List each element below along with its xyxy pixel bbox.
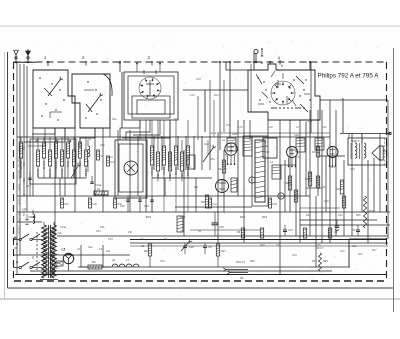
svg-text:L6a: L6a [106, 250, 111, 253]
svg-text:C45: C45 [219, 225, 224, 229]
svg-text:C4a 50p: C4a 50p [18, 142, 21, 152]
svg-text:4,7k: 4,7k [238, 126, 243, 129]
svg-text:C44: C44 [292, 254, 297, 257]
svg-text:R16: R16 [285, 181, 290, 185]
svg-text:C34: C34 [108, 238, 113, 241]
svg-text:R15: R15 [146, 215, 152, 219]
svg-text:C35: C35 [276, 244, 281, 247]
svg-text:R1 2M: R1 2M [36, 169, 40, 177]
svg-text:C41: C41 [213, 203, 218, 206]
svg-text:R14: R14 [218, 167, 223, 171]
svg-text:C26: C26 [144, 204, 149, 208]
svg-text:C2: C2 [140, 237, 144, 241]
svg-text:R26: R26 [144, 249, 149, 253]
svg-text:L3: L3 [270, 160, 273, 164]
svg-text:C12: C12 [111, 161, 116, 164]
svg-text:R15: R15 [240, 215, 246, 219]
svg-text:R9 50k: R9 50k [174, 167, 178, 176]
svg-text:C17 2n: C17 2n [54, 161, 58, 170]
svg-text:C36: C36 [316, 244, 321, 247]
svg-text:C15: C15 [226, 124, 231, 127]
svg-text:R6: R6 [92, 260, 96, 264]
svg-text:C14: C14 [190, 94, 195, 97]
svg-text:CV: CV [180, 230, 184, 233]
svg-text:R1b: R1b [65, 203, 70, 206]
svg-text:S7: S7 [31, 256, 35, 260]
svg-text:C22 5n: C22 5n [168, 173, 172, 182]
svg-text:S4a: S4a [88, 246, 93, 249]
svg-text:C12: C12 [204, 142, 209, 146]
svg-text:C13a: C13a [95, 183, 102, 187]
svg-text:L2: L2 [222, 138, 225, 142]
svg-text:R32: R32 [118, 203, 123, 206]
svg-text:R1a 2M: R1a 2M [18, 170, 21, 179]
svg-text:Philips 792 A et 795 A: Philips 792 A et 795 A [318, 73, 380, 80]
svg-text:(5): (5) [224, 154, 227, 157]
svg-text:R28: R28 [250, 260, 255, 263]
svg-text:C19: C19 [294, 133, 299, 137]
svg-text:R8 0,5: R8 0,5 [162, 167, 166, 175]
svg-text:R18: R18 [305, 177, 310, 181]
svg-text:MF C7: MF C7 [316, 247, 324, 250]
svg-text:R20: R20 [312, 151, 317, 154]
svg-text:R3 1M: R3 1M [60, 169, 64, 177]
svg-text:R22: R22 [336, 187, 341, 191]
svg-text:L6: L6 [112, 258, 116, 262]
svg-text:S13: S13 [54, 266, 59, 270]
svg-text:C33: C33 [96, 230, 101, 233]
svg-text:100pF R2: 100pF R2 [18, 156, 21, 168]
svg-text:0,1uF: 0,1uF [18, 184, 21, 191]
svg-text:R31: R31 [22, 178, 25, 183]
svg-text:R28: R28 [260, 244, 265, 247]
svg-text:L7: L7 [126, 258, 130, 262]
svg-text:L5: L5 [62, 248, 66, 252]
svg-text:C31: C31 [338, 214, 343, 217]
svg-text:C33a: C33a [60, 226, 67, 229]
svg-text:C23a: C23a [306, 120, 313, 123]
svg-text:R24: R24 [306, 214, 311, 217]
svg-text:R33: R33 [273, 203, 278, 206]
svg-text:6: 6 [280, 195, 282, 199]
svg-text:R25: R25 [356, 214, 361, 217]
svg-text:C13: C13 [196, 78, 201, 81]
svg-text:R14: R14 [108, 156, 113, 159]
svg-text:R21: R21 [322, 186, 327, 189]
svg-text:C6: C6 [208, 245, 212, 249]
svg-text:5: 5 [251, 179, 253, 183]
svg-text:R23: R23 [369, 209, 374, 213]
svg-text:C30: C30 [324, 200, 329, 203]
svg-text:R17: R17 [358, 252, 363, 256]
svg-text:R7 1M: R7 1M [150, 167, 154, 175]
svg-text:C40: C40 [93, 203, 98, 206]
svg-text:R25: R25 [323, 259, 328, 263]
svg-text:R27: R27 [221, 249, 226, 253]
svg-text:S10: S10 [352, 245, 357, 248]
svg-text:R15: R15 [201, 201, 206, 204]
svg-text:C2a: C2a [112, 118, 117, 121]
svg-text:C6a: C6a [22, 162, 25, 167]
svg-text:C13: C13 [288, 229, 293, 232]
svg-text:C4: C4 [352, 228, 356, 232]
svg-text:C28: C28 [350, 168, 355, 171]
svg-text:S2b: S2b [100, 226, 105, 229]
svg-text:R2 50k: R2 50k [48, 169, 52, 178]
svg-text:500Ω 5: 500Ω 5 [351, 139, 360, 143]
svg-text:R20: R20 [330, 166, 335, 169]
svg-text:R5: R5 [240, 276, 244, 280]
svg-text:R5 50: R5 50 [84, 169, 88, 176]
svg-text:R2a: R2a [210, 158, 215, 161]
svg-text:R17: R17 [372, 249, 377, 252]
svg-text:C16: C16 [232, 132, 237, 136]
svg-text:C18: C18 [268, 126, 273, 129]
svg-text:L10: L10 [22, 207, 27, 211]
svg-text:C43: C43 [160, 260, 165, 263]
svg-text:C21 2n: C21 2n [156, 173, 160, 182]
svg-text:C36: C36 [186, 165, 191, 169]
svg-text:C20: C20 [322, 126, 327, 129]
svg-text:R15 C7: R15 C7 [236, 260, 246, 264]
svg-text:C5 1n: C5 1n [18, 198, 21, 205]
svg-text:C23 1n: C23 1n [180, 173, 184, 182]
svg-text:C12: C12 [100, 144, 105, 147]
svg-text:C22a: C22a [210, 132, 217, 135]
svg-text:S4: S4 [58, 231, 62, 235]
svg-text:C27: C27 [296, 156, 301, 159]
svg-text:R30 50k: R30 50k [18, 212, 21, 222]
svg-text:CW: CW [189, 245, 194, 249]
svg-text:R29: R29 [312, 260, 317, 263]
svg-text:C17: C17 [26, 184, 31, 188]
svg-text:R13: R13 [214, 94, 219, 97]
svg-text:S10: S10 [340, 250, 345, 253]
svg-text:C8: C8 [128, 230, 132, 234]
svg-text:C11 2n: C11 2n [18, 226, 21, 234]
